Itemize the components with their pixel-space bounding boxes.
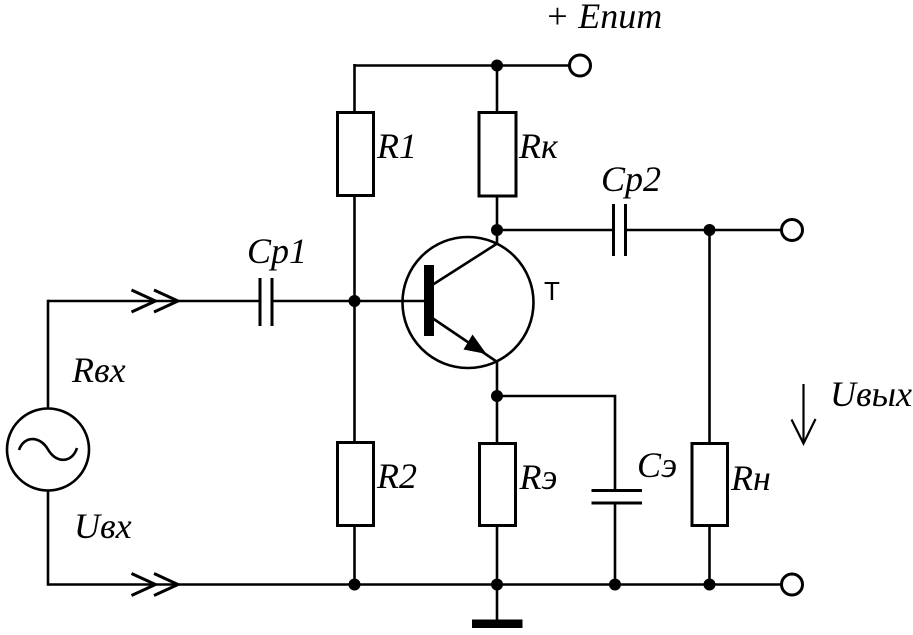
wire Cp2 to output terminal bbox=[627, 229, 782, 232]
wire top supply rail bbox=[355, 64, 570, 67]
wire Rн bottom bbox=[708, 526, 711, 585]
svg-text:R1: R1 bbox=[376, 126, 417, 166]
capacitor Сэ bbox=[592, 491, 643, 504]
wire source bottom bbox=[47, 491, 50, 586]
wire emitter to Сэ bbox=[497, 396, 615, 490]
svg-text:Rвх: Rвх bbox=[71, 350, 126, 390]
node junction on supply rail bbox=[491, 60, 503, 72]
wire R2 bottom bbox=[353, 526, 356, 585]
node emitter junction bbox=[491, 390, 503, 402]
svg-text:+ Eпит: + Eпит bbox=[545, 0, 662, 36]
terminal output bottom bbox=[782, 574, 803, 595]
node bottom R2 junction bbox=[349, 579, 361, 591]
wire Rк bottom to collector bbox=[496, 196, 499, 245]
svg-text:R2: R2 bbox=[376, 456, 417, 496]
source G1 Uвх bbox=[7, 409, 89, 491]
node bottom Rн junction bbox=[704, 579, 716, 591]
svg-text:Сэ: Сэ bbox=[637, 445, 677, 485]
wire Сэ bottom bbox=[614, 504, 617, 585]
node bottom Rэ junction bbox=[491, 579, 503, 591]
wire collector to Cp2 bbox=[497, 229, 612, 232]
wire Cp1 to base bbox=[274, 300, 425, 303]
resistor Rн bbox=[692, 444, 728, 526]
wire output node down to Rн bbox=[708, 230, 711, 444]
node collector junction bbox=[491, 224, 503, 236]
wire Rэ bottom bbox=[496, 526, 499, 585]
capacitor Ср1 bbox=[260, 278, 272, 326]
svg-text:Ср2: Ср2 bbox=[601, 159, 661, 199]
wire input top bbox=[48, 300, 259, 303]
svg-text:Rк: Rк bbox=[518, 126, 559, 166]
node output junction bbox=[704, 224, 716, 236]
ground bbox=[472, 585, 523, 629]
node base divider junction bbox=[349, 295, 361, 307]
svg-text:Т: Т bbox=[544, 276, 560, 306]
svg-text:Ср1: Ср1 bbox=[247, 231, 307, 271]
wire bottom rail bbox=[48, 583, 782, 586]
transistor T bbox=[403, 237, 534, 368]
svg-text:Uвых: Uвых bbox=[830, 374, 912, 414]
wire R1 bottom to R2 top bbox=[353, 196, 356, 443]
node bottom Сэ junction bbox=[609, 579, 621, 591]
svg-text:Rэ: Rэ bbox=[519, 457, 558, 497]
arrow Uвых bbox=[792, 384, 816, 444]
terminal +Eпит bbox=[570, 55, 591, 76]
resistor R2 bbox=[338, 443, 374, 526]
resistor Rэ bbox=[480, 444, 516, 526]
wire source top bbox=[47, 300, 50, 409]
wire emitter down bbox=[496, 361, 499, 444]
wire Rк top bbox=[496, 64, 499, 113]
svg-text:Uвх: Uвх bbox=[74, 506, 132, 546]
wire input arrows top bbox=[132, 290, 179, 312]
wire input arrows bottom bbox=[132, 574, 179, 596]
wire R1 top bbox=[353, 64, 356, 113]
capacitor Ср2 bbox=[614, 204, 626, 256]
resistor Rк bbox=[479, 113, 516, 197]
resistor R1 bbox=[338, 113, 374, 196]
terminal output top bbox=[782, 220, 803, 241]
svg-text:Rн: Rн bbox=[730, 458, 771, 498]
